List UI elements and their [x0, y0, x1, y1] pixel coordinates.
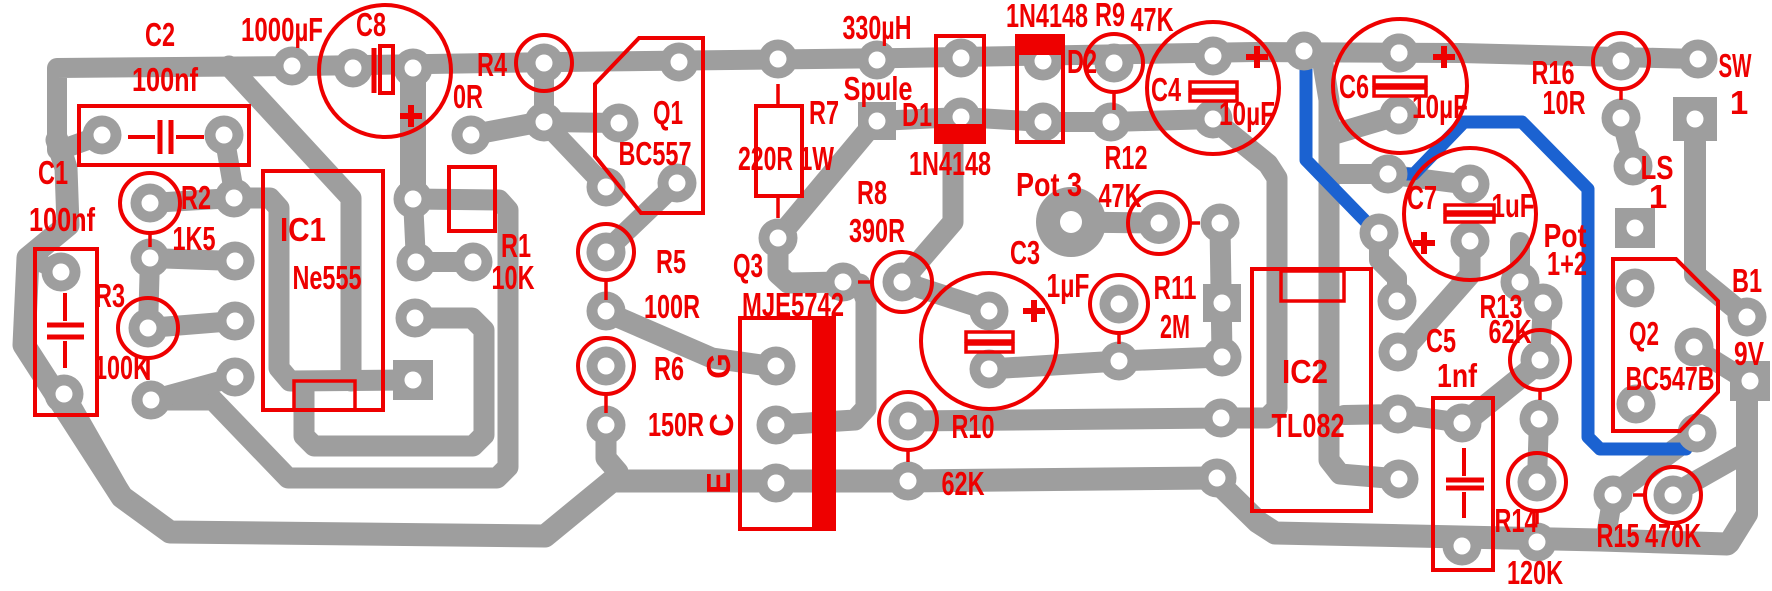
svg-text:C2: C2	[145, 16, 175, 53]
svg-text:10µF: 10µF	[1219, 95, 1275, 132]
svg-text:Q2: Q2	[1629, 315, 1659, 352]
svg-text:1uF: 1uF	[1492, 187, 1535, 224]
svg-text:C3: C3	[1010, 234, 1040, 271]
svg-text:62K: 62K	[1489, 313, 1532, 350]
svg-text:2M: 2M	[1160, 308, 1190, 345]
svg-text:C1: C1	[38, 154, 68, 191]
svg-text:100R: 100R	[644, 288, 700, 325]
svg-text:C: C	[703, 413, 740, 437]
svg-text:R7: R7	[809, 94, 839, 131]
svg-text:9V: 9V	[1734, 335, 1764, 372]
svg-text:C7: C7	[1407, 179, 1437, 216]
svg-text:C5: C5	[1426, 322, 1456, 359]
svg-text:BC547B: BC547B	[1626, 360, 1715, 397]
svg-text:B1: B1	[1732, 262, 1762, 299]
svg-text:100K: 100K	[94, 349, 150, 386]
svg-text:1: 1	[1649, 178, 1667, 215]
svg-text:Pot 3: Pot 3	[1016, 166, 1082, 203]
svg-text:10R: 10R	[1543, 84, 1586, 121]
svg-text:R12: R12	[1105, 139, 1148, 176]
svg-text:470K: 470K	[1645, 517, 1701, 554]
svg-text:C4: C4	[1151, 71, 1181, 108]
svg-text:D2: D2	[1067, 43, 1097, 80]
svg-text:BC557: BC557	[619, 135, 692, 172]
svg-text:C8: C8	[356, 6, 386, 43]
svg-text:100nf: 100nf	[29, 201, 96, 238]
svg-text:1N4148: 1N4148	[1006, 0, 1088, 34]
svg-text:1µF: 1µF	[1047, 267, 1090, 304]
svg-text:100nf: 100nf	[132, 61, 199, 98]
svg-text:62K: 62K	[942, 465, 985, 502]
svg-text:R14: R14	[1495, 502, 1538, 539]
svg-text:1N4148: 1N4148	[909, 145, 991, 182]
svg-text:E: E	[700, 472, 737, 494]
svg-text:10K: 10K	[492, 259, 535, 296]
svg-text:IC1: IC1	[280, 211, 326, 248]
svg-text:390R: 390R	[849, 212, 905, 249]
svg-text:R2: R2	[181, 179, 211, 216]
svg-text:R15: R15	[1597, 517, 1640, 554]
svg-text:120K: 120K	[1507, 554, 1563, 591]
svg-text:0R: 0R	[453, 78, 483, 115]
svg-text:R11: R11	[1154, 269, 1197, 306]
svg-text:330µH: 330µH	[843, 9, 912, 46]
svg-text:1nf: 1nf	[1437, 357, 1478, 394]
svg-text:R5: R5	[656, 243, 686, 280]
svg-text:1K5: 1K5	[173, 220, 216, 257]
svg-text:47K: 47K	[1131, 1, 1174, 38]
svg-text:1000µF: 1000µF	[241, 11, 323, 48]
svg-text:Ne555: Ne555	[293, 259, 362, 296]
svg-text:Q3: Q3	[733, 247, 763, 284]
svg-text:TL082: TL082	[1272, 407, 1345, 444]
svg-text:R9: R9	[1095, 0, 1125, 33]
svg-text:R8: R8	[857, 174, 887, 211]
svg-text:C6: C6	[1339, 68, 1369, 105]
svg-text:MJE5742: MJE5742	[742, 286, 844, 323]
svg-text:SW: SW	[1719, 47, 1753, 84]
svg-text:47K: 47K	[1099, 177, 1142, 214]
svg-text:1: 1	[1730, 84, 1748, 121]
svg-text:R10: R10	[952, 408, 995, 445]
svg-text:10µF: 10µF	[1412, 88, 1468, 125]
svg-text:R6: R6	[654, 350, 684, 387]
svg-text:1+2: 1+2	[1547, 245, 1587, 282]
svg-text:R3: R3	[95, 277, 125, 314]
svg-text:220R 1W: 220R 1W	[738, 140, 835, 177]
svg-text:D1: D1	[902, 96, 932, 133]
svg-text:G: G	[700, 353, 737, 379]
svg-text:IC2: IC2	[1282, 353, 1328, 390]
svg-text:Q1: Q1	[653, 94, 683, 131]
svg-text:150R: 150R	[648, 406, 704, 443]
